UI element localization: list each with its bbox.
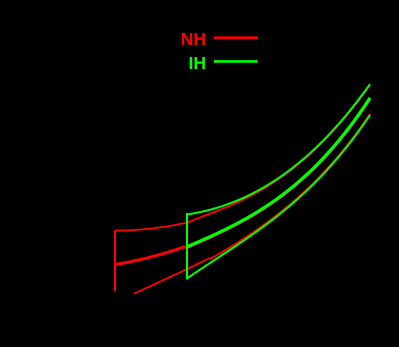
IH green central thick curve bbox=[187, 98, 370, 247]
svg-text:NH: NH bbox=[181, 29, 206, 49]
IH green upper curve bbox=[187, 84, 370, 214]
legend IH sample line bbox=[214, 60, 258, 63]
NH red central thick curve bbox=[115, 99, 370, 265]
legend NH sample line bbox=[214, 36, 258, 39]
IH green lower curve bbox=[187, 115, 370, 278]
NH red upper curve bbox=[115, 85, 370, 230]
svg-text:IH: IH bbox=[189, 53, 207, 73]
NH red lower curve bbox=[134, 114, 370, 294]
IH green band vertical bracket bbox=[186, 213, 188, 280]
NH red band vertical bracket bbox=[114, 230, 116, 291]
